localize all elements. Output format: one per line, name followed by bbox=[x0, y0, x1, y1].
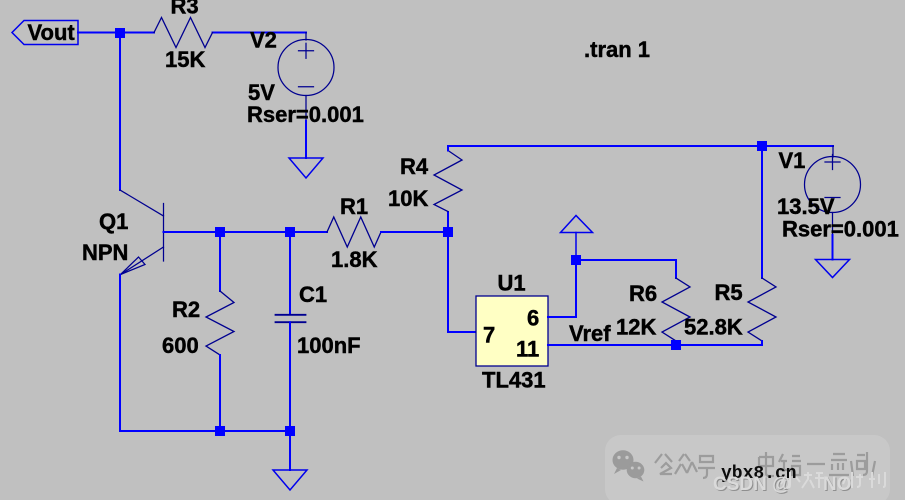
wire R4 top to rail bbox=[447, 146, 449, 151]
watermark xiaoxin glyphs bbox=[781, 472, 885, 488]
top rail wire bbox=[448, 145, 833, 147]
svg-text:11: 11 bbox=[516, 337, 539, 362]
svg-text:52.8K: 52.8K bbox=[684, 315, 743, 340]
svg-text:600: 600 bbox=[162, 333, 199, 358]
svg-text:10K: 10K bbox=[388, 186, 428, 211]
net flag Vout bbox=[12, 21, 78, 45]
svg-text:U1: U1 bbox=[498, 271, 526, 296]
svg-text:R2: R2 bbox=[172, 297, 200, 322]
junction C1 top bbox=[285, 227, 295, 237]
svg-text:12K: 12K bbox=[616, 315, 656, 340]
watermark gongzhonghao glyphs bbox=[655, 454, 715, 478]
watermark panel bbox=[605, 435, 890, 500]
junction R1/R4/pin7 node bbox=[443, 227, 453, 237]
up arrow net flag bbox=[561, 216, 593, 261]
svg-text:100nF: 100nF bbox=[297, 333, 361, 358]
wire U1 pin11 / Vref rail bbox=[548, 344, 762, 346]
wire node to R4 bbox=[447, 212, 449, 232]
junction top rail bbox=[757, 141, 767, 151]
svg-text:NO: NO bbox=[823, 474, 852, 495]
watermark dianlu glyphs bbox=[759, 452, 875, 476]
resistor R2 bbox=[206, 291, 234, 355]
svg-text:Rser=0.001: Rser=0.001 bbox=[247, 102, 364, 127]
svg-text:R3: R3 bbox=[171, 0, 199, 19]
svg-text:V2: V2 bbox=[250, 28, 277, 53]
transistor Q1 bbox=[120, 190, 164, 275]
ground below C1 bbox=[273, 470, 307, 490]
svg-text:R1: R1 bbox=[340, 194, 368, 219]
wire R2 bottom bbox=[219, 355, 221, 431]
capacitor C1 bbox=[276, 315, 306, 322]
svg-text:CSDN @: CSDN @ bbox=[713, 474, 791, 495]
watermark wechat icon bbox=[613, 450, 645, 481]
svg-text:13.5V: 13.5V bbox=[777, 194, 835, 219]
junction pin6 node bbox=[571, 255, 581, 265]
svg-text:Q1: Q1 bbox=[99, 209, 128, 234]
svg-text:C1: C1 bbox=[299, 282, 327, 307]
junction bottom C1 bbox=[285, 426, 295, 436]
wire node to R6 bbox=[576, 260, 676, 278]
voltage source V1 bbox=[805, 155, 861, 213]
wire U1 pin6 bbox=[548, 260, 576, 317]
wire node down to U1 pin7 bbox=[448, 232, 476, 332]
watermark CSDN line bbox=[713, 474, 852, 495]
svg-text:1.8K: 1.8K bbox=[331, 247, 378, 272]
wire R2 top bbox=[219, 232, 221, 291]
svg-text:Vout: Vout bbox=[28, 20, 76, 45]
wire R5 bottom bbox=[761, 341, 763, 345]
resistor R5 bbox=[748, 278, 776, 341]
wire emitter down bbox=[119, 275, 121, 432]
resistor R4 bbox=[434, 151, 462, 212]
wire V2 to ground bbox=[305, 96, 307, 122]
wire flag to R3 bbox=[78, 32, 154, 34]
ground below V1 bbox=[816, 260, 850, 278]
svg-text:Rser=0.001: Rser=0.001 bbox=[782, 217, 899, 242]
wire R6 bottom bbox=[675, 341, 677, 345]
ground below V2 bbox=[289, 158, 323, 178]
svg-text:Vref: Vref bbox=[569, 321, 611, 346]
resistor R3 bbox=[154, 18, 213, 48]
wire R3 to V2 bbox=[213, 32, 307, 34]
voltage source V2 bbox=[278, 40, 334, 96]
junction bottom left bbox=[215, 426, 225, 436]
junction R6 bottom bbox=[671, 340, 681, 350]
junction R2 top bbox=[215, 227, 225, 237]
wire C1 bottom bbox=[289, 322, 291, 431]
wire R1 to node bbox=[381, 231, 448, 233]
svg-text:R5: R5 bbox=[715, 280, 743, 305]
junction Vout node bbox=[115, 28, 125, 38]
wire V1 to ground bbox=[832, 213, 834, 236]
wire C1 top bbox=[289, 232, 291, 314]
svg-text:V1: V1 bbox=[779, 148, 806, 173]
wire Q1 base to R1 bbox=[164, 231, 328, 233]
svg-text:TL431: TL431 bbox=[482, 368, 546, 393]
resistor R1 bbox=[327, 217, 381, 247]
svg-text:6: 6 bbox=[527, 306, 539, 331]
svg-text:NPN: NPN bbox=[82, 240, 128, 265]
svg-text:R6: R6 bbox=[629, 281, 657, 306]
svg-text:.tran 1: .tran 1 bbox=[584, 37, 650, 62]
wire Vout junction down to Q1 collector bbox=[119, 33, 121, 191]
svg-text:7: 7 bbox=[483, 323, 495, 348]
IC U1 TL431 body bbox=[476, 296, 548, 366]
svg-text:15K: 15K bbox=[165, 47, 205, 72]
resistor R6 bbox=[662, 278, 690, 341]
wire to bottom ground bbox=[289, 431, 291, 470]
svg-text:R4: R4 bbox=[400, 154, 429, 179]
wire V1 rail to R5 bbox=[761, 146, 763, 278]
watermark CSDN line shadow bbox=[714, 475, 853, 496]
bottom wire bbox=[120, 430, 290, 432]
